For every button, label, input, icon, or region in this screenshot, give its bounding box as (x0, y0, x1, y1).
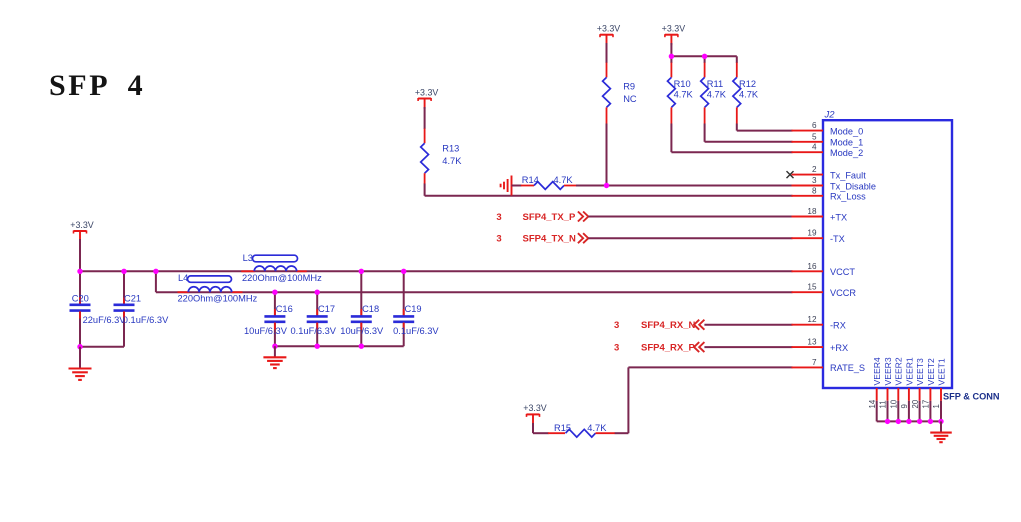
power +3.3V P3 (feeds R9) (597, 24, 621, 46)
svg-text:Mode_2: Mode_2 (830, 148, 863, 158)
resistor R9 NC (603, 43, 637, 124)
wire R11 to pin5 Mode_1 (705, 124, 793, 142)
junction dot C17 top (315, 290, 320, 295)
svg-text:12: 12 (807, 315, 817, 324)
wire VCCR bus to pin15 (156, 291, 793, 293)
pin 8 Rx_Loss (792, 186, 867, 201)
pin 9 VEER1 (bottom) (900, 357, 914, 421)
pin 1 VEET1 (bottom) (932, 358, 946, 421)
svg-text:SFP4_RX_N: SFP4_RX_N (641, 320, 696, 331)
svg-text:+TX: +TX (830, 212, 847, 222)
junction dot C16 top (272, 290, 277, 295)
wire link +3.3V to R10..R12 tops (671, 43, 736, 63)
svg-text:C19: C19 (405, 304, 422, 314)
node SFP4_TX_P flag (496, 212, 588, 224)
svg-text:4.7K: 4.7K (442, 156, 462, 166)
svg-text:R10: R10 (674, 79, 691, 89)
capacitor C21 0.1uF/6.3V (114, 271, 170, 346)
svg-text:SFP & CONN: SFP & CONN (943, 392, 1000, 402)
svg-text:SFP4_TX_N: SFP4_TX_N (523, 234, 576, 245)
svg-text:0.1uF/6.3V: 0.1uF/6.3V (393, 326, 439, 336)
svg-text:0.1uF/6.3V: 0.1uF/6.3V (123, 315, 169, 325)
svg-text:16: 16 (807, 262, 817, 271)
wire R14 to pin3 Tx_Disable (576, 185, 793, 187)
junction dot rail x887 (885, 419, 890, 424)
svg-text:SFP4_TX_P: SFP4_TX_P (523, 212, 576, 223)
ground under C16 (263, 357, 286, 368)
svg-text:L3: L3 (243, 253, 253, 263)
pin 15 VCCR (792, 283, 857, 298)
wire SFP4_RX_P to pin13 (704, 346, 792, 348)
svg-text:18: 18 (807, 207, 817, 216)
wire R15 to pin7 RATE_S (615, 367, 793, 433)
svg-text:VEER2: VEER2 (894, 357, 904, 385)
wire C20 rail to ground (79, 347, 81, 369)
svg-text:20: 20 (911, 399, 920, 408)
wire R12 to pin6 Mode_0 (737, 124, 793, 131)
svg-text:R12: R12 (739, 79, 756, 89)
wire R9 bottom to Tx_Disable net (606, 124, 608, 186)
pin 16 VCCT (792, 262, 856, 277)
svg-text:4.7K: 4.7K (554, 175, 574, 185)
svg-text:VCCT: VCCT (830, 267, 855, 277)
svg-text:5: 5 (812, 132, 817, 141)
svg-text:Mode_0: Mode_0 (830, 126, 863, 136)
capacitor C16 10uF/6.3V (244, 292, 293, 346)
svg-text:VEER3: VEER3 (883, 357, 893, 385)
wire SFP4_TX_P to pin18 (588, 216, 792, 218)
svg-text:22uF/6.3V: 22uF/6.3V (83, 315, 127, 325)
svg-text:+3.3V: +3.3V (415, 87, 439, 97)
resistor R14 4.7K (512, 175, 577, 190)
svg-text:L4: L4 (178, 273, 188, 283)
svg-text:+3.3V: +3.3V (597, 24, 621, 34)
resistor R15 4.7K (548, 423, 615, 437)
junction dot rail x941 (938, 419, 943, 424)
svg-text:Rx_Loss: Rx_Loss (830, 192, 866, 202)
svg-text:3: 3 (496, 212, 501, 223)
svg-text:VCCR: VCCR (830, 288, 856, 298)
svg-text:VEET3: VEET3 (915, 358, 925, 385)
svg-text:+3.3V: +3.3V (70, 220, 94, 230)
junction dot rail x930 (928, 419, 933, 424)
inductor L3 220Ohm@100MHz (241, 253, 322, 283)
wire branch VCCT to VCCR (155, 271, 157, 292)
label SFP & CONN (943, 392, 1000, 402)
svg-text:4.7K: 4.7K (707, 89, 727, 99)
pin 11 VEER3 (bottom) (879, 357, 893, 421)
ground under C20 (69, 369, 92, 380)
pin 14 VEER4 (bottom) (868, 357, 882, 421)
power +3.3V P4 (feeds R10/R11/R12) (662, 24, 686, 46)
svg-text:C21: C21 (124, 293, 141, 303)
svg-text:VEET2: VEET2 (926, 358, 936, 385)
capacitor C18 10uF/6.3V (340, 271, 384, 346)
wire C16-C19 bottom rail (275, 345, 404, 347)
resistor R12 4.7K (733, 63, 759, 124)
svg-text:10uF/6.3V: 10uF/6.3V (340, 326, 384, 336)
connector J2 body (823, 110, 952, 389)
resistor R10 4.7K (668, 63, 694, 124)
svg-text:SFP 4: SFP 4 (49, 69, 145, 102)
wire SFP4_TX_N to pin19 (588, 237, 792, 239)
junction dot C18 bottom (359, 344, 364, 349)
pin 13 +RX (792, 338, 849, 353)
svg-text:2: 2 (812, 165, 817, 174)
pin 4 Mode_2 (792, 143, 864, 158)
junction dot C20 bottom (77, 344, 82, 349)
svg-text:15: 15 (807, 283, 817, 292)
pin 7 RATE_S (792, 358, 866, 373)
svg-text:C18: C18 (362, 304, 379, 314)
node SFP4_RX_N flag (614, 320, 704, 332)
pin 12 -RX (792, 315, 846, 330)
svg-text:9: 9 (900, 404, 909, 408)
junction dot C18 top (359, 269, 364, 274)
svg-text:+RX: +RX (830, 343, 848, 353)
svg-text:1: 1 (932, 404, 941, 408)
junction dot rail x919 (917, 419, 922, 424)
power +3.3V P1 (left, feeds VCCT/VCCR bus) (70, 220, 94, 242)
wire rail to ground (940, 421, 942, 432)
junction dot rail x908 (906, 419, 911, 424)
svg-text:17: 17 (922, 400, 931, 409)
svg-text:3: 3 (496, 234, 501, 245)
svg-text:R11: R11 (707, 79, 723, 89)
svg-text:J2: J2 (824, 110, 836, 121)
no-connect X on pin 2 (787, 171, 794, 178)
junction dot C21 top (121, 269, 126, 274)
junction dot R9/R14 net (604, 183, 609, 188)
svg-text:3: 3 (812, 176, 817, 185)
resistor R11 4.7K (701, 63, 727, 124)
junction dot rail x898 (896, 419, 901, 424)
junction dot C16 bottom (272, 344, 277, 349)
svg-text:4.7K: 4.7K (739, 89, 759, 99)
svg-text:SFP4_RX_P: SFP4_RX_P (641, 343, 696, 354)
pin 10 VEER2 (bottom) (890, 357, 904, 421)
capacitor C17 0.1uF/6.3V (291, 292, 337, 346)
wire VEER/VEET ground rail (877, 420, 941, 422)
wire C20-C21 bottom rail (80, 346, 124, 348)
pin 18 +TX (792, 207, 848, 222)
wire R13 bottom to pin8 Rx_Loss (425, 184, 793, 196)
junction dot C20 top (77, 269, 82, 274)
capacitor C19 0.1uF/6.3V (393, 271, 439, 346)
svg-text:4: 4 (812, 143, 817, 152)
pin 20 VEET3 (bottom) (911, 358, 925, 421)
wire P5 to R15 (533, 423, 549, 433)
svg-text:+3.3V: +3.3V (523, 403, 547, 413)
svg-text:14: 14 (868, 399, 877, 408)
junction dot R11 top (702, 54, 707, 59)
svg-text:RATE_S: RATE_S (830, 363, 865, 373)
junction dot C17 bottom (315, 344, 320, 349)
svg-text:VEER1: VEER1 (904, 357, 914, 385)
pin 2 Tx_Fault (792, 165, 867, 180)
pin 3 Tx_Disable (792, 176, 876, 191)
svg-text:R14: R14 (522, 175, 539, 185)
wire SFP4_RX_N to pin12 (704, 324, 792, 326)
svg-text:VEET1: VEET1 (936, 358, 946, 385)
pin 19 -TX (792, 229, 845, 244)
svg-text:13: 13 (807, 338, 817, 347)
svg-text:NC: NC (623, 94, 637, 104)
junction dot R10 top (669, 54, 674, 59)
svg-text:VEER4: VEER4 (872, 357, 882, 385)
svg-text:-TX: -TX (830, 234, 845, 244)
ground under VEET1 (930, 433, 952, 443)
svg-text:19: 19 (807, 229, 817, 238)
svg-text:0.1uF/6.3V: 0.1uF/6.3V (291, 326, 337, 336)
svg-text:Mode_1: Mode_1 (830, 138, 863, 148)
resistor R13 4.7K (421, 107, 463, 184)
wire VCCT bus to pin16 (80, 270, 793, 272)
svg-text:11: 11 (879, 400, 888, 408)
svg-text:4.7K: 4.7K (674, 89, 694, 99)
svg-text:C16: C16 (276, 304, 293, 314)
svg-text:220Ohm@100MHz: 220Ohm@100MHz (178, 293, 258, 303)
svg-text:7: 7 (812, 358, 817, 367)
svg-text:+3.3V: +3.3V (662, 24, 686, 34)
svg-text:4.7K: 4.7K (587, 423, 607, 433)
wire P1 stub down (79, 239, 81, 271)
svg-text:3: 3 (614, 343, 619, 354)
svg-text:Tx_Fault: Tx_Fault (830, 170, 866, 180)
svg-text:6: 6 (812, 121, 817, 130)
pin 6 Mode_0 (792, 121, 864, 136)
svg-text:R15: R15 (554, 423, 571, 433)
pin 17 VEET2 (bottom) (922, 358, 936, 421)
wire R10 to pin4 Mode_2 (671, 124, 792, 153)
svg-text:-RX: -RX (830, 321, 846, 331)
svg-text:R13: R13 (442, 144, 459, 154)
svg-text:10uF/6.3V: 10uF/6.3V (244, 326, 288, 336)
svg-text:3: 3 (614, 320, 619, 331)
capacitor C20 22uF/6.3V (70, 271, 127, 346)
node SFP4_TX_N flag (496, 233, 588, 245)
node SFP4_RX_P flag (614, 342, 704, 354)
svg-text:10: 10 (890, 399, 899, 408)
power +3.3V P2 (feeds R13) (415, 87, 439, 109)
pin 5 Mode_1 (792, 132, 864, 147)
svg-text:8: 8 (812, 186, 817, 195)
svg-text:R9: R9 (623, 82, 635, 92)
svg-text:Tx_Disable: Tx_Disable (830, 181, 876, 191)
junction dot VCCR branch (153, 269, 158, 274)
junction dot C19 top (401, 269, 406, 274)
inductor L4 220Ohm@100MHz (178, 273, 258, 304)
title SFP 4 (49, 69, 145, 102)
ground (sideways) at R14 (501, 176, 512, 196)
svg-text:C17: C17 (318, 304, 335, 314)
power +3.3V P5 (feeds R15) (523, 403, 547, 425)
svg-text:C20: C20 (72, 293, 89, 303)
wire C16 rail to ground (274, 346, 276, 357)
svg-text:220Ohm@100MHz: 220Ohm@100MHz (242, 273, 322, 283)
